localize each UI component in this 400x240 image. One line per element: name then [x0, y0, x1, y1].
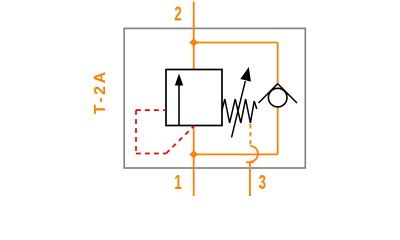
pilot line dashed diagonal: [166, 127, 194, 154]
wire port 1 vertical: [193, 126, 195, 197]
svg-text:3: 3: [259, 171, 266, 193]
wire below check valve: [277, 107, 279, 154]
enclosure border: [124, 28, 305, 168]
svg-text:2: 2: [174, 3, 181, 25]
junction bottom: [190, 150, 198, 158]
check valve ball: [268, 88, 287, 107]
valve flow arrow head: [175, 74, 183, 86]
wire bottom horizontal: [194, 153, 278, 155]
wire port 3 vertical: [249, 162, 251, 196]
valve body: [166, 70, 222, 126]
drain terminal bar: [246, 161, 254, 163]
wire branch horizontal top: [194, 42, 278, 44]
valve flow arrow shaft: [178, 84, 180, 125]
spring adjust arrow shaft: [232, 81, 246, 138]
spring adjust arrow head: [240, 67, 251, 82]
junction top: [190, 38, 198, 46]
pilot line dashed left: [135, 110, 137, 153]
svg-text:1: 1: [174, 171, 181, 193]
pilot line dashed top: [136, 109, 166, 111]
wire check valve feed: [277, 43, 279, 85]
wire port 2 vertical: [193, 2, 195, 70]
pilot line dashed bottom: [136, 153, 166, 155]
check valve seat right: [278, 84, 297, 103]
check valve seat left: [259, 84, 278, 103]
svg-text:T-2A: T-2A: [92, 69, 109, 114]
spring zigzag: [222, 99, 257, 123]
drain jump arc: [250, 146, 258, 162]
drain pilot dashed: [249, 124, 251, 146]
